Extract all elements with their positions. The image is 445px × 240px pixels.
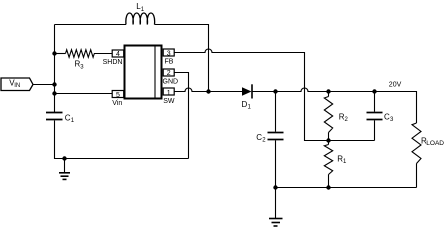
svg-text:GND: GND bbox=[163, 79, 179, 86]
svg-text:4: 4 bbox=[116, 51, 120, 58]
svg-text:2: 2 bbox=[167, 70, 171, 77]
svg-text:LOAD: LOAD bbox=[426, 140, 444, 147]
svg-text:1: 1 bbox=[167, 90, 171, 97]
svg-text:5: 5 bbox=[116, 92, 120, 99]
svg-text:FB: FB bbox=[165, 59, 174, 66]
svg-text:3: 3 bbox=[167, 51, 171, 58]
svg-text:SHDN: SHDN bbox=[103, 59, 123, 66]
svg-text:Vin: Vin bbox=[112, 100, 122, 107]
svg-text:IN: IN bbox=[14, 83, 20, 89]
svg-text:SW: SW bbox=[163, 98, 175, 105]
svg-text:20V: 20V bbox=[389, 81, 402, 88]
